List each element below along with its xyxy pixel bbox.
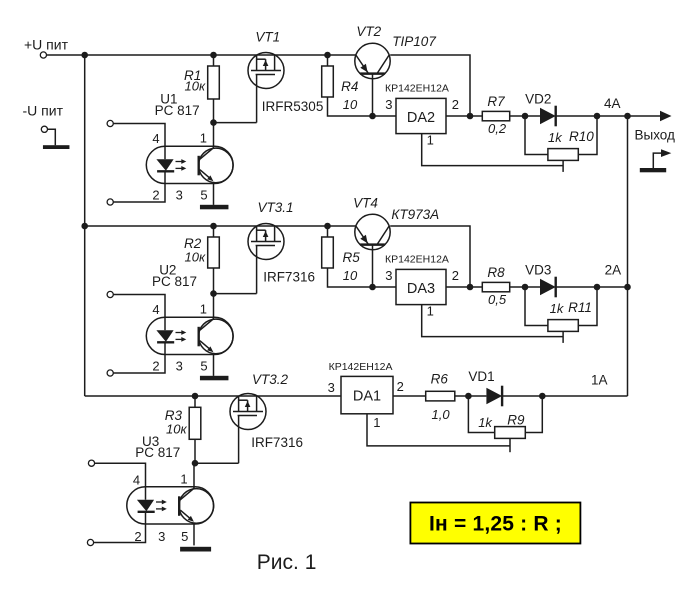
diode VD3 bbox=[525, 277, 556, 298]
svg-text:10к: 10к bbox=[166, 422, 187, 437]
resistor R8 bbox=[482, 282, 509, 291]
svg-text:4: 4 bbox=[152, 131, 159, 146]
junction R3 top bbox=[192, 393, 199, 400]
junction R6/R9 left bbox=[465, 393, 472, 400]
wire DA1 pin1 bbox=[367, 414, 510, 446]
svg-text:PC 817: PC 817 bbox=[155, 103, 200, 118]
wire DA1 output bbox=[393, 395, 426, 397]
wire DA2 pin1 bbox=[422, 134, 564, 166]
svg-text:КР142ЕН12А: КР142ЕН12А bbox=[329, 361, 393, 373]
wire R7 to VD2 bbox=[510, 115, 525, 117]
wire R1 top lead bbox=[213, 55, 215, 66]
svg-text:R9: R9 bbox=[507, 413, 525, 428]
svg-text:0,5: 0,5 bbox=[488, 292, 507, 307]
wire R3 top lead bbox=[194, 396, 196, 407]
junction output bus row2 bbox=[624, 284, 631, 291]
wire R8 to VD3 bbox=[510, 286, 525, 288]
optocoupler U1 bbox=[146, 122, 233, 205]
svg-text:КР142ЕН12А: КР142ЕН12А bbox=[385, 254, 449, 266]
diode VD2 bbox=[525, 106, 556, 127]
terminal +U пит bbox=[40, 52, 46, 58]
junction bus row2 bbox=[81, 223, 88, 230]
junction R2 top bbox=[210, 223, 217, 230]
svg-text:0,2: 0,2 bbox=[488, 121, 507, 136]
ground -U пит bbox=[43, 145, 69, 149]
svg-text:-U пит: -U пит bbox=[23, 103, 64, 119]
terminal U1 cathode input bbox=[107, 199, 113, 205]
wire VT2 base lead bbox=[372, 74, 374, 116]
svg-text:R7: R7 bbox=[487, 94, 505, 109]
svg-text:4: 4 bbox=[133, 473, 140, 488]
regulator DA2 bbox=[396, 98, 446, 133]
junction R8/R11 left bbox=[522, 284, 529, 291]
wire VT2 collector to DA2 output bbox=[390, 55, 470, 116]
svg-text:1: 1 bbox=[200, 302, 207, 317]
wire R10 right leg bbox=[578, 116, 597, 155]
terminal U3 cathode input bbox=[87, 539, 93, 545]
svg-text:+U пит: +U пит bbox=[24, 37, 69, 53]
svg-text:R5: R5 bbox=[343, 250, 361, 265]
svg-text:R10: R10 bbox=[569, 129, 594, 144]
junction VT2 base bbox=[369, 113, 376, 120]
svg-text:1k: 1k bbox=[478, 415, 493, 430]
wire VT3.2 gate bbox=[195, 462, 239, 464]
svg-text:10: 10 bbox=[343, 268, 358, 283]
svg-text:IRFR5305: IRFR5305 bbox=[262, 99, 324, 114]
wire left bus vertical bbox=[84, 55, 86, 396]
wire VT3.1 gate bbox=[214, 293, 257, 295]
output return arrow bbox=[653, 149, 671, 168]
svg-text:4: 4 bbox=[152, 302, 159, 317]
svg-text:VT4: VT4 bbox=[353, 196, 378, 211]
transistor VT3.1 bbox=[248, 224, 284, 294]
svg-text:2: 2 bbox=[152, 188, 159, 203]
svg-text:КР142ЕН12А: КР142ЕН12А bbox=[385, 83, 449, 95]
svg-text:3: 3 bbox=[176, 359, 183, 374]
resistor R1 bbox=[208, 66, 220, 99]
wire R5 bottom to DA3 input bbox=[328, 268, 397, 287]
transistor VT1 bbox=[248, 53, 284, 123]
svg-text:5: 5 bbox=[200, 359, 207, 374]
ground U2 emitter bbox=[200, 376, 229, 381]
resistor R5 bbox=[322, 237, 334, 268]
wire -U to ground bbox=[48, 129, 56, 145]
potentiometer R9 bbox=[495, 427, 526, 453]
svg-text:1: 1 bbox=[373, 415, 380, 430]
optocoupler U3 bbox=[127, 463, 214, 546]
regulator DA3 bbox=[396, 269, 446, 304]
resistor R7 bbox=[482, 111, 509, 120]
output arrow 4A bbox=[628, 111, 672, 122]
wire to R7 bbox=[470, 115, 482, 117]
wire VT4 collector to DA3 output bbox=[390, 226, 470, 287]
ground U1 emitter bbox=[200, 205, 229, 210]
wire top rail row1 bbox=[85, 54, 356, 56]
transistor VT3.2 bbox=[230, 394, 266, 464]
potentiometer R11 bbox=[548, 320, 578, 343]
svg-text:1,0: 1,0 bbox=[432, 407, 451, 422]
junction DA2 out bbox=[467, 113, 474, 120]
wire R2 bottom lead bbox=[213, 268, 215, 294]
svg-text:Выход: Выход bbox=[635, 128, 676, 143]
svg-text:2: 2 bbox=[452, 268, 459, 283]
junction +U bus bbox=[81, 52, 88, 59]
wire rail row3 bbox=[85, 395, 341, 397]
wire U1 anode input bbox=[113, 124, 165, 147]
terminal U1 anode input bbox=[107, 120, 113, 126]
svg-text:VD2: VD2 bbox=[525, 92, 551, 107]
svg-text:1A: 1A bbox=[591, 373, 608, 388]
formula box Iн = 1,25 : R bbox=[410, 503, 580, 544]
regulator DA1 bbox=[341, 376, 393, 413]
svg-text:5: 5 bbox=[181, 529, 188, 544]
svg-text:2: 2 bbox=[134, 529, 141, 544]
wire U2 anode input bbox=[113, 295, 165, 318]
wire R11 left leg bbox=[525, 287, 548, 326]
svg-text:2: 2 bbox=[452, 97, 459, 112]
svg-text:VT1: VT1 bbox=[255, 30, 280, 45]
wire to R8 bbox=[470, 286, 482, 288]
optocoupler U2 bbox=[146, 293, 233, 376]
svg-text:3: 3 bbox=[176, 188, 183, 203]
wire 1A to bus corner bbox=[542, 395, 627, 397]
junction R4 top bbox=[324, 52, 331, 59]
potentiometer R10 bbox=[548, 149, 578, 172]
svg-text:3: 3 bbox=[158, 529, 165, 544]
wire R6 to VD1 bbox=[455, 395, 469, 397]
wire U2 cathode input bbox=[113, 355, 165, 374]
wire rail row2 bbox=[85, 225, 356, 227]
wire U3 anode input bbox=[95, 463, 146, 487]
wire to output bus bbox=[597, 115, 628, 117]
junction R2/gate/opto U2 bbox=[210, 290, 217, 297]
wire DA3 output bbox=[446, 286, 470, 288]
wire output bus vertical bbox=[627, 116, 629, 396]
junction DA3 out bbox=[467, 284, 474, 291]
svg-text:PC 817: PC 817 bbox=[135, 445, 180, 460]
resistor R3 bbox=[189, 407, 201, 439]
wire R10 left leg bbox=[525, 116, 548, 155]
svg-text:1k: 1k bbox=[550, 301, 565, 316]
svg-text:3: 3 bbox=[385, 97, 392, 112]
svg-text:DA1: DA1 bbox=[353, 389, 381, 405]
svg-text:10к: 10к bbox=[185, 79, 206, 94]
junction R1/gate/opto U1 bbox=[210, 119, 217, 126]
svg-text:TIP107: TIP107 bbox=[392, 34, 436, 49]
svg-text:1: 1 bbox=[427, 132, 434, 147]
wire R9 left leg bbox=[468, 396, 494, 433]
transistor VT4 bbox=[355, 214, 390, 249]
wire R2 top lead bbox=[213, 226, 215, 237]
transistor VT2 bbox=[355, 43, 390, 78]
svg-text:IRF7316: IRF7316 bbox=[263, 270, 315, 285]
svg-text:PC 817: PC 817 bbox=[152, 274, 197, 289]
terminal U2 cathode input bbox=[107, 370, 113, 376]
resistor R6 bbox=[426, 391, 455, 401]
svg-text:КТ973А: КТ973А bbox=[391, 207, 439, 222]
svg-text:1: 1 bbox=[427, 303, 434, 318]
svg-text:2: 2 bbox=[152, 359, 159, 374]
svg-text:3: 3 bbox=[328, 380, 335, 395]
wire VT4 base lead bbox=[372, 245, 374, 287]
junction R9 right bbox=[539, 393, 546, 400]
svg-text:R8: R8 bbox=[487, 265, 505, 280]
svg-text:5: 5 bbox=[200, 188, 207, 203]
svg-text:DA2: DA2 bbox=[407, 110, 435, 126]
junction R7/R10 left bbox=[522, 113, 529, 120]
junction R5 top bbox=[324, 223, 331, 230]
wire VT1 gate bbox=[214, 122, 257, 124]
wire R1 bottom lead bbox=[213, 99, 215, 123]
wire DA2 output bbox=[446, 115, 470, 117]
wire +U to junction bbox=[47, 54, 85, 56]
svg-text:R6: R6 bbox=[431, 372, 449, 387]
svg-text:1k: 1k bbox=[548, 130, 563, 145]
wire to output bus row2 bbox=[597, 286, 628, 288]
junction R1 top bbox=[210, 52, 217, 59]
svg-text:VT2: VT2 bbox=[356, 24, 381, 39]
svg-text:R4: R4 bbox=[341, 79, 358, 94]
junction VT4 base bbox=[369, 284, 376, 291]
svg-text:IRF7316: IRF7316 bbox=[251, 435, 303, 450]
svg-text:1: 1 bbox=[200, 131, 207, 146]
svg-text:1: 1 bbox=[180, 472, 187, 487]
junction R10 right bbox=[594, 113, 601, 120]
wire R4 top lead bbox=[327, 55, 329, 66]
svg-text:4A: 4A bbox=[604, 96, 621, 111]
wire VD1 cathode bbox=[502, 395, 542, 397]
terminal -U пит bbox=[41, 126, 47, 132]
svg-text:2: 2 bbox=[397, 379, 404, 394]
wire VD3 cathode bbox=[556, 286, 597, 288]
ground U3 emitter bbox=[180, 547, 211, 552]
svg-text:Iн = 1,25 : R ;: Iн = 1,25 : R ; bbox=[429, 513, 562, 536]
resistor R4 bbox=[322, 66, 334, 97]
resistor R2 bbox=[208, 237, 220, 268]
wire R9 right leg bbox=[525, 396, 542, 433]
diode VD1 bbox=[468, 386, 502, 407]
wire U3 cathode input bbox=[94, 524, 146, 543]
terminal U3 anode input bbox=[88, 460, 94, 466]
svg-text:3: 3 bbox=[385, 268, 392, 283]
wire R11 right leg bbox=[578, 287, 597, 326]
svg-text:10к: 10к bbox=[185, 250, 206, 265]
wire R3 bottom lead bbox=[194, 439, 196, 463]
svg-text:VT3.1: VT3.1 bbox=[258, 200, 294, 215]
wire U1 cathode input bbox=[113, 184, 165, 203]
svg-text:VT3.2: VT3.2 bbox=[252, 372, 289, 387]
junction R3/gate/opto U3 bbox=[192, 460, 199, 467]
svg-text:VD3: VD3 bbox=[525, 263, 551, 278]
svg-text:2A: 2A bbox=[605, 263, 622, 278]
wire R4 bottom to DA2 input bbox=[328, 97, 397, 116]
wire DA3 pin1 bbox=[422, 305, 564, 337]
terminal U2 anode input bbox=[107, 291, 113, 297]
junction output bus row1 bbox=[624, 113, 631, 120]
wire VD2 cathode bbox=[556, 115, 597, 117]
junction R11 right bbox=[594, 284, 601, 291]
svg-text:DA3: DA3 bbox=[407, 281, 435, 297]
svg-text:R11: R11 bbox=[568, 300, 592, 315]
ground output bbox=[640, 168, 666, 172]
svg-text:Рис. 1: Рис. 1 bbox=[257, 551, 317, 574]
svg-text:10: 10 bbox=[343, 97, 358, 112]
wire R5 top lead bbox=[327, 226, 329, 237]
svg-text:VD1: VD1 bbox=[468, 369, 494, 384]
